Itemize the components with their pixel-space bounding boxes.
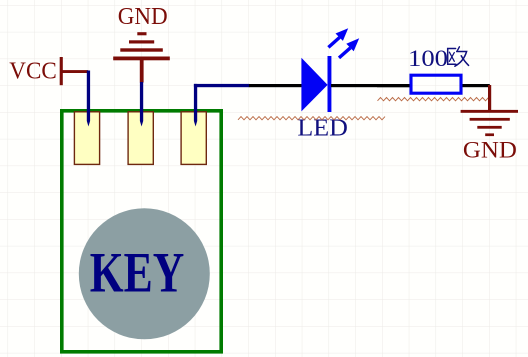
power port GND (top) earth symbol	[113, 32, 170, 82]
LED D1 light arrow 2	[339, 38, 359, 58]
wire from pin 3 to LED anode	[194, 84, 250, 127]
pin 1 pad	[74, 112, 99, 165]
resistor R1 left pin wire	[377, 84, 410, 87]
resistor R1 value label 100	[408, 46, 448, 72]
resistor R1 body	[411, 75, 461, 93]
label KEY	[90, 242, 185, 305]
label LED	[297, 114, 348, 141]
LED D1 cathode bar	[328, 56, 332, 112]
pin 3 pad	[181, 112, 206, 165]
power port GND (top) label	[118, 4, 168, 30]
power port GND (right) label	[463, 137, 517, 163]
LED D1 light arrow 1	[328, 28, 348, 47]
svg-text:100: 100	[408, 46, 448, 72]
LED D1 anode pin wire	[249, 84, 302, 87]
error squiggle under LED label	[238, 117, 385, 120]
power port VCC label	[9, 59, 57, 85]
error squiggle under resistor	[378, 98, 489, 101]
power port GND (right) stem	[488, 85, 491, 111]
svg-text:GND: GND	[463, 137, 517, 163]
svg-text:VCC: VCC	[9, 59, 57, 85]
resistor R1 value label character OU (Chinese ohm)	[448, 47, 469, 66]
svg-text:KEY: KEY	[90, 242, 185, 305]
LED D1 triangle	[301, 58, 327, 112]
svg-text:GND: GND	[118, 4, 168, 30]
power port VCC bar symbol	[60, 57, 88, 85]
pin 2 pad	[128, 112, 153, 165]
resistor R1 right pin wire	[463, 84, 490, 87]
power port GND (right) earth symbol	[461, 110, 518, 136]
wire from GND port to pin 2	[140, 82, 143, 127]
wire from VCC port to pin 1	[87, 71, 90, 127]
component S1 key switch body	[62, 111, 221, 352]
key button circle	[79, 208, 210, 339]
LED D1 cathode pin wire	[331, 84, 410, 87]
